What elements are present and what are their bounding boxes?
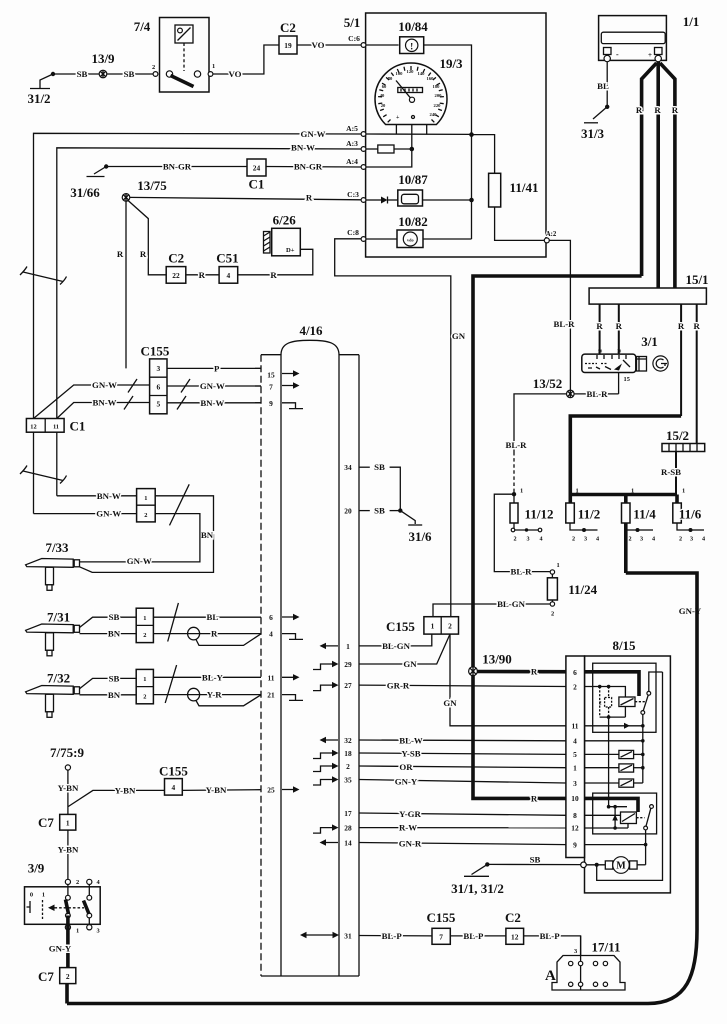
svg-text:2: 2 [448, 622, 452, 631]
connector C7 pin 1 [38, 814, 76, 830]
relay 1 coil circuit from pin 2 [585, 685, 626, 719]
svg-text:12: 12 [30, 423, 36, 430]
wire R box to 4/16 pin 4 [153, 627, 261, 645]
diode on C:3 row [366, 197, 398, 204]
svg-text:+: + [396, 115, 400, 121]
svg-text:R: R [531, 793, 538, 803]
wire GN 4/16 pin29 to C155 pin2 [359, 634, 450, 669]
wire P C155 to 4/16 pin 15 [167, 363, 261, 373]
wire Y-SB 4/16 pin18 to 8/15 pin5 [359, 749, 566, 759]
svg-text:31/1, 31/2: 31/1, 31/2 [451, 881, 504, 896]
svg-text:1: 1 [682, 488, 685, 495]
fuse bus thick horizontal [570, 493, 677, 497]
ignition switch 3/1 [582, 334, 668, 373]
4/16 right strip left arrows (pins 1,32,14) [320, 643, 339, 846]
svg-text:C155: C155 [427, 910, 456, 925]
svg-text:C1: C1 [249, 177, 265, 192]
wire BN 7/31 to box [80, 629, 137, 639]
svg-text:31: 31 [344, 932, 352, 941]
relay 1 coil [619, 697, 646, 707]
svg-text:1: 1 [76, 928, 79, 935]
svg-text:GN-W: GN-W [92, 380, 117, 390]
connector C7 pin 2 [38, 968, 76, 984]
svg-text:11/4: 11/4 [633, 507, 656, 522]
warning lamp 10/84 [398, 19, 428, 54]
relay 1 thick feed from pin 6 [585, 672, 640, 696]
wire GN-Y 3/9 to C7 pin 2 [49, 916, 72, 968]
svg-text:C1: C1 [70, 419, 86, 434]
4/16 left strip pin numbers [267, 371, 275, 795]
svg-text:C2: C2 [505, 910, 521, 925]
fuse 11/4 [622, 488, 657, 574]
svg-text:13/90: 13/90 [482, 652, 512, 667]
svg-text:3: 3 [574, 948, 577, 955]
wire Y-BN 7/75:9 to C7 [58, 770, 79, 814]
wire BN 7/32 to box [80, 690, 137, 700]
junction dot [469, 132, 474, 137]
instrument cluster 5/1 box [344, 13, 546, 257]
svg-text:2: 2 [628, 536, 631, 543]
svg-text:GR-R: GR-R [387, 680, 410, 690]
svg-text:R: R [211, 629, 218, 639]
svg-text:17/11: 17/11 [592, 940, 621, 955]
svg-text:2: 2 [573, 682, 577, 691]
svg-text:C7: C7 [38, 815, 54, 830]
wire BL-GN 4/16 pin1 to C155 pin1 [359, 634, 432, 651]
wire 3/1 pin 15 to 13/52 [574, 373, 630, 400]
wire OR 4/16 pin2 to 8/15 pin1 [359, 762, 566, 772]
svg-text:C155: C155 [386, 619, 415, 634]
wire SB 7/31 to box [80, 612, 137, 627]
svg-text:1: 1 [66, 819, 70, 828]
svg-text:31/2: 31/2 [27, 91, 50, 106]
battery 1/1 [599, 14, 700, 62]
svg-text:1: 1 [143, 615, 146, 622]
fuse box 15/1 [589, 272, 708, 304]
wire BN-W to connector box (from cable) [57, 491, 137, 501]
4/16 right strip hook arrows (pins 29,27,18,2,35,28) [313, 661, 339, 833]
svg-text:24: 24 [253, 164, 261, 173]
speedometer legs [396, 125, 426, 150]
svg-text:BL-R: BL-R [505, 440, 527, 450]
fuse holder 15/2 [662, 428, 705, 452]
svg-text:11/6: 11/6 [679, 507, 702, 522]
pin C:3 [361, 198, 366, 203]
svg-text:2: 2 [152, 64, 155, 71]
svg-text:Y-BN: Y-BN [58, 844, 79, 854]
wire pin 11 row inside [585, 723, 645, 729]
fuse 11/12 [510, 488, 553, 543]
svg-text:29: 29 [344, 660, 352, 669]
svg-text:vdo: vdo [407, 238, 414, 243]
svg-text:BL-P: BL-P [382, 931, 403, 941]
svg-text:R: R [270, 270, 277, 280]
svg-text:SB: SB [77, 69, 88, 79]
svg-text:BL: BL [597, 81, 609, 91]
wire pin 9 row [585, 844, 646, 846]
svg-text:35: 35 [344, 776, 352, 785]
svg-text:R: R [694, 321, 701, 331]
svg-text:VO: VO [311, 40, 324, 50]
clock 10/82 [366, 214, 428, 248]
svg-text:1: 1 [557, 562, 560, 569]
svg-text:3/9: 3/9 [28, 861, 45, 876]
svg-text:120: 120 [407, 69, 415, 74]
svg-text:GN-Y: GN-Y [49, 944, 72, 954]
wire BL-R 13/52 to 11/12 pin 1 [514, 394, 567, 452]
svg-text:BL-GN: BL-GN [382, 641, 411, 651]
svg-text:4: 4 [269, 630, 273, 639]
svg-text:19: 19 [284, 41, 292, 50]
svg-text:17: 17 [344, 809, 352, 818]
svg-text:28: 28 [344, 824, 352, 833]
connector box (1/2) for 7/32 [136, 669, 153, 703]
breaker 7/75:9 [50, 745, 84, 770]
speedometer 19/3 [375, 56, 463, 125]
svg-text:-: - [616, 50, 619, 59]
cable marker (lower left pair) [20, 466, 67, 484]
svg-text:R-W: R-W [399, 823, 417, 833]
resistor 11/41 [489, 173, 539, 207]
svg-text:7: 7 [439, 933, 443, 942]
cable slash 7/32 [165, 665, 176, 703]
wire BL-P C2 to 17/11 [524, 931, 581, 956]
svg-text:9: 9 [269, 399, 273, 408]
svg-text:4: 4 [539, 536, 542, 543]
svg-text:18: 18 [344, 749, 352, 758]
svg-text:BL-P: BL-P [540, 931, 561, 941]
connector C155 pin 4 [159, 764, 188, 796]
svg-text:C155: C155 [159, 764, 188, 779]
gauge 10/87 [398, 172, 428, 206]
resistor block pin 5 [585, 750, 645, 758]
resistor block pin 3 [585, 779, 643, 787]
4/16 left strip arrows [282, 370, 300, 792]
wire R-SB 15/2 to bus [661, 452, 681, 495]
svg-text:BN-W: BN-W [200, 398, 224, 408]
svg-text:10/84: 10/84 [398, 19, 428, 34]
svg-text:1: 1 [346, 642, 350, 651]
relay 1 switch [641, 691, 651, 740]
svg-text:C2: C2 [168, 251, 184, 266]
wire C:6 to 10/84 [366, 44, 399, 46]
wire GN-W (A:5 to left cable) [34, 129, 362, 419]
connector 13/75 [122, 178, 167, 201]
svg-text:BL-R: BL-R [510, 567, 532, 577]
svg-text:11/24: 11/24 [568, 582, 597, 597]
motor M [581, 857, 646, 874]
svg-text:10/82: 10/82 [398, 214, 428, 229]
svg-text:1: 1 [212, 63, 215, 70]
svg-text:3: 3 [97, 928, 100, 935]
wire 10/84 to junction [424, 45, 472, 135]
wire GN-R 4/16 pin14 to 8/15 pin9 [359, 839, 566, 849]
wire R 13/75 to C2 pin 22 [128, 200, 167, 275]
wire BL-P C155 to C2 [450, 931, 506, 941]
ground 31/2 [27, 72, 55, 106]
svg-text:R: R [596, 321, 603, 331]
svg-text:Y-BN: Y-BN [58, 783, 79, 793]
svg-text:6: 6 [573, 668, 577, 677]
svg-text:GN-W: GN-W [301, 129, 326, 139]
svg-text:GN-R: GN-R [399, 839, 422, 849]
svg-text:32: 32 [344, 736, 352, 745]
wire GN C:8 to C155 pin 2 [335, 239, 466, 617]
svg-text:4: 4 [573, 737, 577, 746]
wire R C2 to C51 [186, 274, 219, 276]
wire GN-Y C7 down to bottom run [65, 984, 69, 1004]
pin A:3 [361, 147, 366, 152]
svg-text:A:4: A:4 [346, 157, 358, 166]
svg-text:2: 2 [551, 611, 554, 618]
svg-text:Y-BN: Y-BN [206, 785, 227, 795]
svg-text:1: 1 [520, 488, 523, 495]
svg-text:1: 1 [431, 622, 435, 631]
svg-text:1: 1 [144, 495, 147, 502]
wire BL box to 4/16 pin 6 [153, 612, 261, 622]
svg-text:2: 2 [144, 512, 147, 519]
svg-text:R: R [306, 193, 313, 203]
relay 2 switch [644, 805, 654, 865]
svg-text:3/1: 3/1 [641, 334, 658, 349]
svg-text:7/75:9: 7/75:9 [50, 745, 84, 760]
pin A:2 [544, 238, 549, 243]
svg-text:7/31: 7/31 [47, 610, 70, 625]
svg-text:OR: OR [399, 762, 413, 772]
pin C:8 [361, 237, 366, 242]
svg-text:R: R [654, 105, 661, 115]
wiper motor unit 8/15 outer box [566, 638, 671, 893]
svg-text:240: 240 [430, 112, 438, 117]
connector C2 pin 19 [279, 20, 297, 54]
svg-text:2: 2 [513, 536, 516, 543]
svg-text:A:3: A:3 [346, 139, 358, 148]
relay 2 coil circuit [585, 717, 629, 830]
connector 13/90 [469, 652, 512, 676]
svg-text:GN-W: GN-W [127, 556, 152, 566]
4/16 pin 9,4,21 step symbols [282, 403, 303, 701]
wire SB to 13/9 [53, 73, 99, 75]
wire R 13/75 down to C155 [117, 201, 126, 368]
connector C1 pin 24 [247, 159, 266, 192]
wire BN box pin1 to 7/33 body [80, 496, 214, 573]
svg-text:3: 3 [573, 779, 577, 788]
svg-text:2: 2 [76, 879, 79, 886]
svg-text:GN-Y: GN-Y [395, 776, 418, 786]
washer pump 7/32 [26, 671, 80, 718]
pin A:5 [361, 132, 366, 137]
svg-text:2: 2 [66, 972, 70, 981]
cable marker (upper left pair) [20, 267, 67, 285]
svg-text:GN-W: GN-W [200, 381, 225, 391]
svg-text:1: 1 [42, 892, 45, 899]
svg-text:4: 4 [227, 271, 231, 280]
4/16 right strip pin numbers [344, 463, 352, 940]
wire VO from C2 to 5/1 C:6 [297, 44, 361, 46]
svg-text:3: 3 [640, 536, 643, 543]
svg-text:31/6: 31/6 [408, 529, 432, 544]
connector C155 pin 7 [427, 910, 456, 944]
wire R battery feeds (3x thick) [636, 62, 679, 288]
svg-text:+: + [648, 51, 652, 59]
svg-text:7/4: 7/4 [134, 19, 151, 34]
connector C1 (12|11) [26, 419, 85, 434]
svg-text:1: 1 [576, 488, 579, 495]
svg-text:10/87: 10/87 [398, 172, 428, 187]
wire Y-BN branch to C155 pin 4 [68, 785, 164, 806]
wire BL-R from A:2 down [549, 240, 575, 390]
4/16 pin 31 double arrow [300, 932, 339, 938]
svg-text:100: 100 [396, 71, 404, 76]
svg-text:GN: GN [443, 698, 457, 708]
firewall connector 17/11 [545, 936, 625, 990]
svg-text:3: 3 [690, 536, 693, 543]
connector C2 pin 12 [505, 910, 524, 944]
svg-text:13/75: 13/75 [137, 178, 167, 193]
svg-text:SB: SB [124, 69, 135, 79]
svg-text:3: 3 [156, 364, 160, 373]
svg-text:40: 40 [380, 93, 385, 98]
svg-text:6/26: 6/26 [273, 213, 297, 228]
svg-text:25: 25 [267, 786, 275, 795]
svg-text:20: 20 [344, 507, 352, 516]
wire pin 4 row inside [585, 739, 645, 783]
wire BL-GN C155 pin1 to 11/24 pin2 [433, 599, 550, 617]
wire VO from 7/4 to C2 [213, 45, 279, 74]
svg-text:11/12: 11/12 [525, 507, 554, 522]
svg-text:BN: BN [108, 629, 121, 639]
cable slashes right of C155 [177, 379, 190, 410]
wire SB pin 20 to ground [359, 506, 402, 516]
resistor 11/24 [547, 562, 597, 618]
svg-text:C155: C155 [141, 344, 170, 359]
pin C:6 [361, 43, 366, 48]
svg-text:1: 1 [573, 764, 577, 773]
svg-text:BL-Y: BL-Y [202, 672, 224, 682]
svg-text:3: 3 [526, 536, 529, 543]
wire Y-GR 4/16 pin17 to 8/15 pin8 [359, 809, 566, 819]
svg-text:GN: GN [452, 331, 466, 341]
svg-text:1: 1 [631, 488, 634, 495]
svg-text:BL-GN: BL-GN [497, 599, 526, 609]
wire BN-GR to A:4 [266, 166, 361, 169]
cable slashes left of C155 [124, 379, 137, 410]
wire SB pin 34 to ground [359, 462, 400, 510]
svg-text:R: R [531, 667, 538, 677]
connector C155 (3/6/5) [141, 344, 170, 414]
connector box (1/2) for 7/31 [136, 608, 153, 642]
wire Y-BN C155 to 4/16 pin 25 [182, 785, 261, 795]
wire GN-W C155 to 4/16 pin 7 [167, 381, 261, 391]
svg-text:P: P [214, 363, 220, 373]
svg-text:5/1: 5/1 [344, 15, 361, 30]
svg-text:D+: D+ [286, 247, 295, 254]
svg-text:BL-R: BL-R [586, 389, 608, 399]
svg-text:2: 2 [679, 536, 682, 543]
svg-text:7/33: 7/33 [45, 540, 69, 555]
svg-text:140: 140 [418, 71, 426, 76]
wire 11/12 pin1 to 11/24 [494, 494, 550, 571]
svg-text:SB: SB [109, 612, 120, 622]
wire GN-W box pin2 to 7/33 tip [80, 514, 200, 566]
switch 3/9 [25, 861, 101, 935]
svg-text:7/32: 7/32 [47, 671, 70, 686]
svg-text:GN: GN [403, 659, 417, 669]
svg-text:30: 30 [617, 349, 621, 354]
ground 31/1, 31/2 [451, 864, 504, 896]
svg-text:A: A [545, 968, 556, 984]
svg-text:8: 8 [573, 811, 577, 820]
svg-text:9: 9 [573, 840, 577, 849]
svg-text:15: 15 [267, 371, 275, 380]
relay 1 box [593, 663, 656, 732]
motor return loop [597, 672, 663, 880]
pin A:4 [361, 165, 366, 170]
svg-text:5: 5 [573, 750, 577, 759]
svg-text:7: 7 [269, 382, 273, 391]
svg-text:3: 3 [584, 536, 587, 543]
wire GN-W C1 pin12 to C155 pin6 [34, 380, 150, 419]
svg-text:60: 60 [382, 84, 387, 89]
wire R C51 to 6/26 [238, 249, 313, 274]
relay 2 coil [621, 812, 645, 824]
svg-text:SB: SB [374, 506, 385, 516]
svg-text:SB: SB [530, 855, 541, 865]
svg-text:R: R [672, 105, 679, 115]
svg-text:13/52: 13/52 [533, 376, 563, 391]
fuse 11/6 [673, 488, 705, 543]
connector 13/52 [533, 376, 574, 398]
svg-text:Y-BN: Y-BN [115, 785, 136, 795]
svg-text:C:6: C:6 [348, 34, 360, 43]
svg-text:R-SB: R-SB [661, 467, 681, 477]
wire GN C155 pin2 down to 8/15 pin11 [443, 634, 566, 726]
svg-text:11/41: 11/41 [510, 180, 539, 195]
svg-text:80: 80 [388, 76, 393, 81]
svg-text:15: 15 [624, 376, 630, 383]
cable slash 7/31 [168, 603, 179, 642]
svg-text:220: 220 [434, 103, 442, 108]
wire GN-W to connector box (from cable) [34, 509, 137, 519]
svg-text:2: 2 [346, 762, 350, 771]
svg-text:4: 4 [702, 536, 705, 543]
connector C51 pin 4 [216, 251, 238, 284]
wire BL-P 4/16 pin 31 to C155 [359, 931, 432, 941]
wire SB ground to 8/15 motor [485, 855, 581, 867]
switch 7/4 [134, 18, 216, 93]
thick wire 15/1 to fuse bus [570, 416, 681, 495]
svg-text:C:8: C:8 [347, 228, 359, 237]
svg-text:180: 180 [433, 84, 441, 89]
wire Y-BN C7 to switch 3/9 [58, 830, 79, 879]
svg-text:C7: C7 [38, 969, 54, 984]
svg-text:34: 34 [344, 463, 352, 472]
connector 13/9 [91, 51, 115, 78]
svg-text:13/9: 13/9 [91, 51, 115, 66]
left cable verticals below C1 [33, 432, 35, 513]
4/16 left pin stubs [255, 368, 261, 402]
svg-text:SB: SB [109, 673, 120, 683]
svg-text:0: 0 [30, 892, 33, 899]
connector C2 pin 22 [166, 251, 186, 284]
svg-text:BN-W: BN-W [97, 491, 121, 501]
wire R 13/75 to C:3 [130, 197, 361, 199]
svg-text:Y-R: Y-R [207, 690, 222, 700]
svg-text:M: M [616, 861, 626, 872]
wire BN-W C155 to 4/16 pin 9 [167, 398, 261, 408]
svg-text:160: 160 [427, 76, 435, 81]
svg-text:6: 6 [269, 613, 273, 622]
